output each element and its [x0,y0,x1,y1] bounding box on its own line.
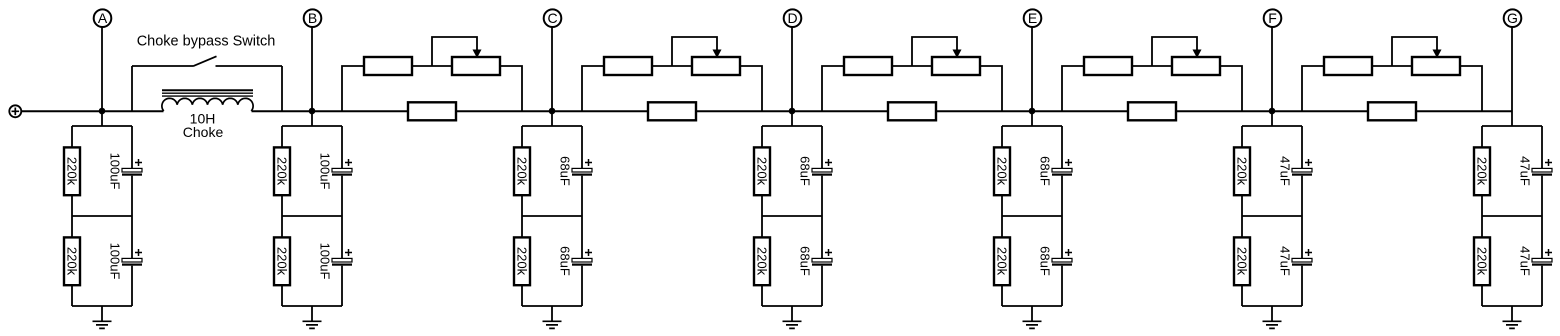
label 68uF (node C upper) [558,156,573,186]
capacitor 100uF (node B lower) [332,258,352,265]
label 220k (node C lower) [515,247,530,276]
wire stack E right leg lower [1061,266,1063,306]
wire stack C left leg middle [521,195,523,237]
wire stack B left leg middle [281,195,283,237]
wire stack F right leg middle [1301,176,1303,258]
capacitor 47uF (node F lower) [1292,258,1312,265]
wire stack E bottom rail [1002,305,1062,307]
svg-text:47uF: 47uF [1518,246,1533,276]
ground (node G) [1503,306,1522,328]
wire stack G right leg upper [1541,126,1543,168]
capacitor 100uF (node A lower) [122,258,142,265]
label 220k (node F upper) [1235,157,1250,186]
ground (node F) [1263,306,1282,328]
svg-text:68uF: 68uF [558,156,573,186]
wire stack B right leg middle [341,176,343,258]
wire stack C left leg upper [521,126,523,147]
wire stack G mid rail [1482,215,1542,217]
wire stack D top rail [762,125,822,127]
svg-text:220k: 220k [275,247,290,276]
wire stack D left leg middle [761,195,763,237]
wire stack G left leg upper [1481,126,1483,147]
wire upper branch E-F right riser [1220,66,1242,111]
junction dot node C [549,108,556,115]
svg-text:220k: 220k [995,247,1010,276]
wire stack E right leg upper [1061,126,1063,168]
wire potentiometer VR1 wiper link [432,37,477,66]
ground (node D) [783,306,802,328]
svg-text:68uF: 68uF [798,156,813,186]
wire stack B bottom rail [282,305,342,307]
label 68uF (node C lower) [558,246,573,276]
resistor 220k (node E lower) [994,237,1010,285]
svg-text:68uF: 68uF [1038,246,1053,276]
wire upper branch D-E right riser [980,66,1002,111]
svg-text:A: A [98,10,108,26]
ground (node A) [93,306,112,328]
label 220k (node A lower) [65,247,80,276]
label Choke [183,124,224,140]
wire potentiometer VR2 wiper link [672,37,717,66]
svg-text:220k: 220k [755,247,770,276]
wire stack G right leg lower [1541,266,1543,306]
potentiometer VR1 wiper arrow [473,50,482,59]
wire stack D right leg middle [821,176,823,258]
wire stack E left leg upper [1001,126,1003,147]
wire upper branch C-D left riser [582,66,604,111]
label Choke bypass Switch [137,34,276,50]
resistor R5b (main bus F-G) [1368,102,1416,120]
potentiometer VR4 (upper E-F) [1172,57,1220,75]
wire stack A right leg lower [131,266,133,306]
label 100uF (node B lower) [318,243,333,280]
potentiometer VR2 (upper C-D) [692,57,740,75]
wire stack E left leg middle [1001,195,1003,237]
svg-text:100uF: 100uF [108,153,123,190]
wire stack D left leg upper [761,126,763,147]
resistor 220k (node D lower) [754,237,770,285]
wire stack A left leg lower [71,285,73,306]
wire stack A left leg upper [71,126,73,147]
junction dot node B [309,108,316,115]
capacitor 68uF (node C lower) [572,258,592,265]
wire upper branch B-C left riser [342,66,364,111]
svg-text:G: G [1507,10,1518,26]
wire stack C mid rail [522,215,582,217]
label 220k (node E upper) [995,157,1010,186]
wire stack B left leg upper [281,126,283,147]
wire stack A top rail [72,125,132,127]
label 100uF (node A lower) [108,243,123,280]
wire stack D left leg lower [761,285,763,306]
label 220k (node G lower) [1475,247,1490,276]
svg-text:100uF: 100uF [108,243,123,280]
resistor R2a (upper C-D) [604,57,652,75]
wire stack B top rail [282,125,342,127]
node B [304,9,322,27]
resistor 220k (node F upper) [1234,147,1250,195]
wire stack F mid rail [1242,215,1302,217]
label 68uF (node E upper) [1038,156,1053,186]
node G [1504,9,1522,27]
potentiometer VR3 wiper arrow [953,50,962,59]
resistor 220k (node C lower) [514,237,530,285]
wire stack A mid rail [72,215,132,217]
node E [1024,9,1042,27]
wire upper branch C-D middle [652,65,692,67]
capacitor 47uF (node F upper) [1292,168,1312,175]
resistor 220k (node D upper) [754,147,770,195]
wire node C tap [551,27,553,126]
potentiometer VR2 wiper arrow [713,50,722,59]
svg-text:B: B [308,10,317,26]
wire stack A right leg upper [131,126,133,168]
svg-text:220k: 220k [1475,247,1490,276]
wire stack D bottom rail [762,305,822,307]
wire stack F right leg upper [1301,126,1303,168]
svg-text:220k: 220k [65,247,80,276]
capacitor polarity + (node A lower) [135,249,142,256]
wire stack F left leg middle [1241,195,1243,237]
label 68uF (node D lower) [798,246,813,276]
svg-text:68uF: 68uF [1038,156,1053,186]
wire main bus input to choke [21,110,164,112]
wire upper branch F-G middle [1372,65,1412,67]
resistor 220k (node G lower) [1474,237,1490,285]
svg-text:F: F [1268,10,1277,26]
potentiometer VR1 (upper B-C) [452,57,500,75]
resistor R3b (main bus D-E) [888,102,936,120]
capacitor polarity + (node D upper) [825,159,832,166]
wire stack C right leg middle [581,176,583,258]
capacitor 47uF (node G upper) [1532,168,1552,175]
capacitor 68uF (node E lower) [1052,258,1072,265]
svg-text:220k: 220k [1235,247,1250,276]
svg-text:D: D [787,10,797,26]
switch SW1 choke bypass blade [193,56,217,66]
label 220k (node C upper) [515,157,530,186]
label 68uF (node D upper) [798,156,813,186]
label 68uF (node E lower) [1038,246,1053,276]
wire node G tap [1511,27,1513,126]
wire stack A bottom rail [72,305,132,307]
wire stack D mid rail [762,215,822,217]
resistor R4b (main bus E-F) [1128,102,1176,120]
wire upper branch B-C right riser [500,66,522,111]
wire stack G bottom rail [1482,305,1542,307]
svg-text:E: E [1028,10,1037,26]
label 220k (node A upper) [65,157,80,186]
wire stack G left leg lower [1481,285,1483,306]
potentiometer VR4 wiper arrow [1193,50,1202,59]
capacitor polarity + (node D lower) [825,249,832,256]
wire stack F top rail [1242,125,1302,127]
resistor 220k (node E upper) [994,147,1010,195]
svg-text:68uF: 68uF [558,246,573,276]
resistor 220k (node F lower) [1234,237,1250,285]
wire node A tap [101,27,103,126]
capacitor 68uF (node C upper) [572,168,592,175]
capacitor 68uF (node E upper) [1052,168,1072,175]
capacitor polarity + (node C lower) [585,249,592,256]
wire bypass branch top right [216,65,283,67]
wire upper branch E-F middle [1132,65,1172,67]
wire main bus B-C to C-D [457,110,647,112]
wire stack C left leg lower [521,285,523,306]
wire node D tap [791,27,793,126]
wire upper branch D-E middle [892,65,932,67]
capacitor polarity + (node B upper) [345,159,352,166]
node F [1264,9,1282,27]
capacitor polarity + (node G lower) [1545,249,1552,256]
label 220k (node D lower) [755,247,770,276]
wire stack F left leg upper [1241,126,1243,147]
wire upper branch C-D right riser [740,66,762,111]
label 100uF (node A upper) [108,153,123,190]
wire stack B right leg upper [341,126,343,168]
wire stack A left leg middle [71,195,73,237]
capacitor polarity + (node F upper) [1305,159,1312,166]
capacitor 68uF (node D lower) [812,258,832,265]
capacitor polarity + (node F lower) [1305,249,1312,256]
resistor 220k (node A upper) [64,147,80,195]
svg-text:100uF: 100uF [318,153,333,190]
capacitor polarity + (node E upper) [1065,159,1072,166]
wire stack F bottom rail [1242,305,1302,307]
node C [544,9,562,27]
capacitor 68uF (node D upper) [812,168,832,175]
wire main bus E-F to F-G [1177,110,1367,112]
svg-text:220k: 220k [515,157,530,186]
svg-text:220k: 220k [995,157,1010,186]
capacitor polarity + (node C upper) [585,159,592,166]
wire bypass branch top left [132,65,193,67]
wire stack D right leg lower [821,266,823,306]
label 47uF (node G lower) [1518,246,1533,276]
resistor 220k (node B upper) [274,147,290,195]
capacitor polarity + (node B lower) [345,249,352,256]
wire stack C right leg lower [581,266,583,306]
wire stack D right leg upper [821,126,823,168]
wire node E tap [1031,27,1033,126]
svg-text:220k: 220k [1475,157,1490,186]
wire upper branch F-G right riser [1460,66,1482,111]
ground (node C) [543,306,562,328]
svg-text:68uF: 68uF [798,246,813,276]
label 10H value [190,111,216,127]
label 220k (node E lower) [995,247,1010,276]
svg-text:100uF: 100uF [318,243,333,280]
svg-text:Choke: Choke [183,124,224,140]
label 100uF (node B upper) [318,153,333,190]
resistor R3a (upper D-E) [844,57,892,75]
potentiometer VR5 wiper arrow [1433,50,1442,59]
svg-text:220k: 220k [755,157,770,186]
ground (node E) [1023,306,1042,328]
label 47uF (node F upper) [1278,156,1293,186]
wire stack B right leg lower [341,266,343,306]
inductor L1 10H choke [162,90,253,111]
wire stack E right leg middle [1061,176,1063,258]
resistor 220k (node G upper) [1474,147,1490,195]
svg-text:220k: 220k [1235,157,1250,186]
input terminal + [9,105,21,117]
wire stack E mid rail [1002,215,1062,217]
svg-text:220k: 220k [65,157,80,186]
wire bypass branch left riser [131,66,133,111]
svg-text:47uF: 47uF [1518,156,1533,186]
wire potentiometer VR3 wiper link [912,37,957,66]
resistor 220k (node C upper) [514,147,530,195]
svg-text:47uF: 47uF [1278,246,1293,276]
node D [784,9,802,27]
junction dot node E [1029,108,1036,115]
wire potentiometer VR5 wiper link [1392,37,1437,66]
wire upper branch D-E left riser [822,66,844,111]
capacitor polarity + (node G upper) [1545,159,1552,166]
potentiometer VR5 (upper F-G) [1412,57,1460,75]
svg-text:47uF: 47uF [1278,156,1293,186]
svg-text:Choke bypass Switch: Choke bypass Switch [137,34,276,50]
capacitor 47uF (node G lower) [1532,258,1552,265]
ground (node B) [303,306,322,328]
svg-text:C: C [547,10,557,26]
wire main bus choke to R mid B-C [252,110,408,112]
resistor R2b (main bus C-D) [648,102,696,120]
wire node F tap [1271,27,1273,126]
wire stack G right leg middle [1541,176,1543,258]
label 47uF (node F lower) [1278,246,1293,276]
wire upper branch E-F left riser [1062,66,1084,111]
potentiometer VR3 (upper D-E) [932,57,980,75]
label 220k (node G upper) [1475,157,1490,186]
wire main bus D-E to E-F [937,110,1127,112]
wire stack C top rail [522,125,582,127]
label 47uF (node G upper) [1518,156,1533,186]
wire upper branch F-G left riser [1302,66,1324,111]
resistor 220k (node B lower) [274,237,290,285]
capacitor 100uF (node A upper) [122,168,142,175]
resistor R1b (main bus B-C) [408,102,456,120]
resistor R4a (upper E-F) [1084,57,1132,75]
wire stack A right leg middle [131,176,133,258]
wire main bus C-D to D-E [697,110,887,112]
resistor 220k (node A lower) [64,237,80,285]
wire stack E left leg lower [1001,285,1003,306]
junction dot node F [1269,108,1276,115]
wire stack F right leg lower [1301,266,1303,306]
wire stack E top rail [1002,125,1062,127]
label 220k (node F lower) [1235,247,1250,276]
node A [94,9,112,27]
resistor R5a (upper F-G) [1324,57,1372,75]
svg-text:220k: 220k [275,157,290,186]
wire bypass branch right riser [281,66,283,111]
wire node B tap [311,27,313,126]
wire upper branch B-C middle [412,65,452,67]
svg-text:220k: 220k [515,247,530,276]
wire stack G top rail [1482,125,1542,127]
junction dot node A [99,108,106,115]
wire potentiometer VR4 wiper link [1152,37,1197,66]
capacitor 100uF (node B upper) [332,168,352,175]
wire stack B left leg lower [281,285,283,306]
junction dot node D [789,108,796,115]
label 220k (node B lower) [275,247,290,276]
wire stack G left leg middle [1481,195,1483,237]
wire stack F left leg lower [1241,285,1243,306]
wire stack B mid rail [282,215,342,217]
capacitor polarity + (node E lower) [1065,249,1072,256]
capacitor polarity + (node A upper) [135,159,142,166]
wire stack C bottom rail [522,305,582,307]
label 220k (node D upper) [755,157,770,186]
wire main bus F-G to node G [1417,110,1512,112]
resistor R1a (upper B-C) [364,57,412,75]
wire stack C right leg upper [581,126,583,168]
label 220k (node B upper) [275,157,290,186]
